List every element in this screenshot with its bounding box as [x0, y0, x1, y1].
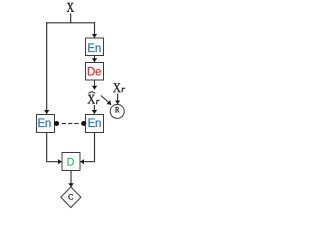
wire right branch down to encoder En1 [94, 22, 96, 38]
wire Xr-hat to encoder En3 [93, 105, 95, 114]
wire Xr to rater R [117, 94, 119, 105]
wire De to node Xr-hat [94, 80, 96, 90]
wire Xr-hat to rater R (diagonal) [101, 96, 111, 105]
wire En2 down and into distortion D [47, 132, 62, 161]
dashed weight-sharing wire segment 3 [74, 123, 78, 125]
decoder De box [86, 63, 104, 81]
encoder En2 box (left) [37, 115, 55, 133]
wire left branch down to encoder En2 [46, 22, 48, 114]
node X [67, 3, 74, 12]
rater R circle [110, 104, 124, 118]
node Xr label [113, 83, 125, 92]
wire D to cost C [70, 171, 72, 188]
wire top rail [46, 22, 95, 24]
cost C diamond [61, 187, 81, 208]
svg-text:De: De [87, 66, 101, 78]
junction dot left (shared weights) [54, 121, 59, 126]
encoder En1 box [86, 38, 104, 56]
encoder En3 box (right) [86, 115, 104, 133]
wire En1 to De [94, 56, 96, 63]
junction dot right (shared weights) [81, 121, 86, 126]
distortion D box [62, 153, 80, 171]
label R [115, 107, 119, 112]
svg-text:D: D [67, 156, 75, 168]
wire En3 down and into distortion D [80, 132, 94, 161]
dashed weight-sharing wire segment 1 [62, 123, 66, 125]
node Xr-hat label [88, 95, 100, 104]
svg-text:En: En [87, 43, 101, 55]
dashed weight-sharing wire segment 2 [68, 123, 72, 125]
label C [68, 194, 72, 199]
wire from X down to rail [70, 14, 72, 24]
svg-text:En: En [88, 118, 102, 130]
svg-text:En: En [37, 118, 51, 130]
hat accent of Xr-hat [88, 92, 95, 94]
